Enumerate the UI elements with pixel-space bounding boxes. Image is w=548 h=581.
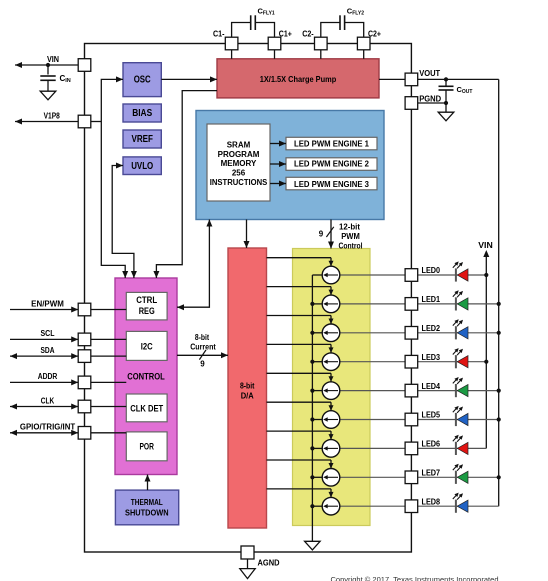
svg-text:LED PWM ENGINE 2: LED PWM ENGINE 2 (294, 159, 369, 169)
svg-text:PROGRAM: PROGRAM (218, 150, 260, 159)
svg-text:1X/1.5X Charge Pump: 1X/1.5X Charge Pump (260, 74, 337, 84)
svg-text:INSTRUCTIONS: INSTRUCTIONS (210, 178, 268, 187)
svg-text:THERMAL: THERMAL (131, 497, 163, 507)
svg-text:CIN: CIN (60, 74, 71, 84)
svg-text:CLK: CLK (41, 396, 55, 405)
svg-text:SRAM: SRAM (227, 141, 251, 150)
svg-text:VREF: VREF (131, 134, 153, 145)
svg-text:VIN: VIN (47, 55, 59, 64)
svg-text:C1-: C1- (213, 29, 225, 38)
svg-text:LED PWM ENGINE 3: LED PWM ENGINE 3 (294, 179, 369, 189)
svg-text:CFLY1: CFLY1 (258, 7, 275, 17)
svg-text:CLK DET: CLK DET (130, 403, 163, 413)
svg-text:CFLY2: CFLY2 (347, 7, 364, 17)
svg-text:COUT: COUT (457, 85, 473, 95)
svg-text:BIAS: BIAS (132, 108, 152, 119)
svg-text:9: 9 (319, 230, 324, 239)
svg-text:D/A: D/A (241, 390, 254, 400)
svg-text:LED8: LED8 (422, 497, 441, 506)
svg-text:12-bit: 12-bit (339, 223, 360, 232)
svg-text:CONTROL: CONTROL (127, 372, 165, 382)
svg-text:Control: Control (339, 242, 363, 251)
svg-text:LED0: LED0 (422, 266, 441, 275)
svg-text:LED6: LED6 (422, 440, 441, 449)
svg-text:LED7: LED7 (422, 469, 441, 478)
svg-text:MEMORY: MEMORY (221, 159, 257, 168)
svg-text:CTRL: CTRL (136, 295, 157, 305)
svg-text:UVLO: UVLO (131, 161, 153, 172)
svg-text:8-bit: 8-bit (240, 380, 255, 390)
svg-text:VIN: VIN (478, 241, 493, 250)
svg-text:I2C: I2C (141, 341, 153, 351)
svg-text:9: 9 (200, 359, 205, 368)
svg-text:V1P8: V1P8 (44, 112, 61, 121)
svg-text:Copyright © 2017, Texas Instru: Copyright © 2017, Texas Instruments Inco… (331, 576, 499, 581)
svg-text:LED1: LED1 (422, 295, 441, 304)
svg-text:SCL: SCL (41, 329, 55, 338)
svg-text:PWM: PWM (341, 232, 360, 241)
svg-text:POR: POR (139, 441, 154, 451)
svg-text:C2-: C2- (302, 29, 314, 38)
svg-text:LED5: LED5 (422, 411, 441, 420)
svg-text:LED2: LED2 (422, 324, 441, 333)
svg-text:EN/PWM: EN/PWM (31, 299, 64, 308)
svg-text:OSC: OSC (134, 75, 151, 86)
svg-text:Current: Current (190, 342, 216, 351)
svg-text:VOUT: VOUT (419, 69, 440, 78)
svg-text:GPIO/TRIG/INT: GPIO/TRIG/INT (20, 423, 75, 432)
svg-text:LED4: LED4 (422, 382, 441, 391)
svg-text:256: 256 (232, 169, 246, 178)
svg-text:SDA: SDA (41, 346, 55, 355)
svg-text:ADDR: ADDR (38, 372, 58, 381)
svg-text:C1+: C1+ (279, 29, 292, 38)
svg-text:LED3: LED3 (422, 353, 441, 362)
svg-text:C2+: C2+ (368, 29, 381, 38)
svg-text:8-bit: 8-bit (195, 333, 210, 342)
svg-text:AGND: AGND (258, 559, 280, 568)
svg-text:REG: REG (139, 306, 155, 316)
svg-text:PGND: PGND (419, 95, 441, 104)
svg-text:LED PWM ENGINE 1: LED PWM ENGINE 1 (294, 138, 369, 148)
svg-text:SHUTDOWN: SHUTDOWN (125, 507, 169, 517)
